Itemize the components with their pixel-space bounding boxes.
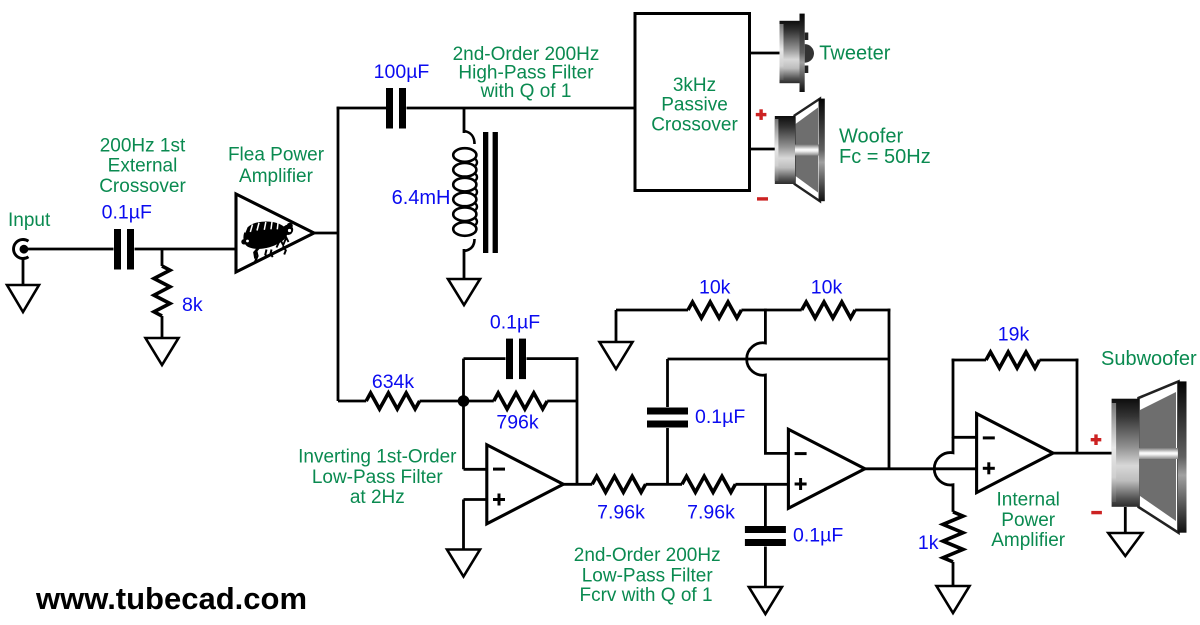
svg-text:Tweeter: Tweeter xyxy=(819,42,890,64)
svg-text:19k: 19k xyxy=(998,324,1030,346)
svg-text:7.96k: 7.96k xyxy=(597,502,645,524)
svg-text:Low-Pass Filter: Low-Pass Filter xyxy=(312,467,444,488)
svg-text:Internal: Internal xyxy=(997,490,1060,511)
svg-text:Subwoofer: Subwoofer xyxy=(1101,348,1197,370)
svg-text:Fcrv with Q of 1: Fcrv with Q of 1 xyxy=(579,585,712,606)
svg-text:634k: 634k xyxy=(372,371,415,393)
svg-text:10k: 10k xyxy=(811,277,843,299)
svg-text:200Hz 1st: 200Hz 1st xyxy=(100,135,186,156)
svg-text:Crossover: Crossover xyxy=(99,176,186,197)
svg-text:0.1µF: 0.1µF xyxy=(490,312,540,334)
svg-text:6.4mH: 6.4mH xyxy=(392,187,451,209)
svg-text:796k: 796k xyxy=(496,412,539,434)
svg-text:www.tubecad.com: www.tubecad.com xyxy=(35,581,307,616)
svg-text:Crossover: Crossover xyxy=(651,115,738,136)
svg-text:Inverting 1st-Order: Inverting 1st-Order xyxy=(298,447,457,468)
svg-text:7.96k: 7.96k xyxy=(687,502,735,524)
svg-text:Low-Pass Filter: Low-Pass Filter xyxy=(582,566,714,587)
svg-text:Input: Input xyxy=(8,210,51,231)
svg-text:at 2Hz: at 2Hz xyxy=(350,487,405,508)
svg-text:8k: 8k xyxy=(182,294,203,316)
svg-text:External: External xyxy=(108,156,178,177)
svg-text:Amplifier: Amplifier xyxy=(991,530,1066,551)
svg-text:1k: 1k xyxy=(918,532,939,554)
svg-text:2nd-Order 200Hz: 2nd-Order 200Hz xyxy=(574,545,721,566)
svg-text:Fc = 50Hz: Fc = 50Hz xyxy=(839,146,931,168)
svg-text:0.1µF: 0.1µF xyxy=(695,406,745,428)
svg-text:Flea Power: Flea Power xyxy=(228,144,325,165)
svg-text:3kHz: 3kHz xyxy=(673,75,716,96)
svg-text:Woofer: Woofer xyxy=(839,126,903,148)
svg-text:0.1µF: 0.1µF xyxy=(793,525,843,547)
svg-text:100µF: 100µF xyxy=(374,61,430,83)
svg-text:Amplifier: Amplifier xyxy=(239,166,314,187)
svg-text:Power: Power xyxy=(1001,510,1056,531)
svg-text:0.1µF: 0.1µF xyxy=(102,201,152,223)
svg-text:Passive: Passive xyxy=(661,95,728,116)
svg-text:10k: 10k xyxy=(699,277,731,299)
svg-text:with Q of 1: with Q of 1 xyxy=(480,81,572,102)
